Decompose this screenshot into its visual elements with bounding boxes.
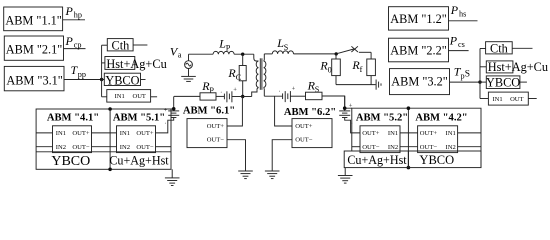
svg-text:Cth: Cth (490, 42, 508, 56)
switch SW (337, 46, 371, 59)
wire 5.1 OUT- stub (156, 146, 172, 148)
node P_hp label (65, 4, 82, 19)
wire 4.1 OUT+ to 5.1 IN1 (92, 132, 117, 134)
svg-text:Cth: Cth (112, 39, 130, 53)
junction divider bottom right pair (407, 166, 411, 170)
svg-text:ABM "6.2": ABM "6.2" (284, 107, 336, 118)
ABM "3.2" block (390, 69, 450, 95)
svg-text:cs: cs (458, 40, 465, 49)
inductor Ls label (276, 36, 289, 52)
wire 5.2 IN1 to 4.2 OUT+ (400, 132, 418, 134)
wire P_hs stub (449, 20, 478, 22)
svg-text:OUT: OUT (133, 93, 146, 100)
wire 5.2 OUT+ to battery V4 (345, 118, 360, 133)
wire P_cp stub (64, 48, 86, 50)
battery V1 primary (220, 86, 237, 102)
svg-text:.: . (279, 87, 281, 94)
battery V3 (164, 107, 180, 126)
svg-text:IN1: IN1 (120, 130, 130, 137)
svg-text:ABM "2.2": ABM "2.2" (390, 43, 447, 57)
ground 6.2 (265, 171, 280, 179)
node T_pp label (71, 63, 86, 79)
svg-text:OUT: OUT (510, 96, 523, 103)
svg-text:OUT+: OUT+ (136, 130, 154, 137)
wire label separator left pair (36, 151, 171, 153)
wire 4.1 IN2 stub (36, 146, 52, 148)
resistor Rp label (201, 79, 214, 95)
wire 6.1 OUT- drop (227, 140, 246, 171)
wire Ls to switch (294, 53, 337, 55)
capacitor Cth (right) (480, 42, 533, 56)
wire primary bottom left (174, 95, 200, 97)
wire top edge extension to Rp (171, 96, 174, 111)
svg-text:hp: hp (74, 11, 82, 20)
junction T_pp bracket (100, 78, 103, 81)
svg-text:ABM "3.1": ABM "3.1" (6, 73, 63, 87)
resistor Rf label (351, 58, 362, 74)
svg-text:a: a (178, 51, 182, 60)
svg-text:P: P (449, 34, 458, 48)
wire 4.1 IN1 stub (36, 132, 52, 134)
resistor Rf (367, 59, 376, 85)
svg-text:ABM "1.2": ABM "1.2" (390, 12, 447, 26)
wire battery V2 to Rs (290, 95, 305, 97)
node T_ps label (454, 65, 470, 81)
svg-text:IN2: IN2 (388, 144, 398, 151)
inductor Lp label (218, 37, 231, 53)
junction divider top right pair (407, 106, 411, 110)
svg-text:IN1: IN1 (115, 93, 125, 100)
source Va label (170, 45, 182, 60)
ABM "5.2"/"4.2" outer box (352, 108, 481, 167)
ABM "2.2" block (389, 38, 449, 62)
resistor R0 (332, 54, 341, 85)
svg-text:YBCO: YBCO (105, 73, 139, 87)
wire 6.2 OUT+ riser (275, 96, 292, 126)
svg-text:P: P (65, 34, 74, 48)
wire R0-Rf bottom rail (336, 84, 376, 86)
block 5.2 pins (360, 126, 400, 153)
wire divider 5.2/4.2 (407, 108, 409, 167)
wire P_cs stub (449, 50, 469, 52)
ground left pair (165, 178, 180, 186)
wire 6.1 OUT+ riser (227, 97, 242, 127)
resistor Rs (306, 92, 323, 100)
svg-text:IN1: IN1 (446, 130, 456, 137)
svg-text:.: . (351, 119, 353, 126)
wire 4.2 IN2 stub (458, 146, 481, 148)
block Hst+Ag+Cu (right) (480, 60, 548, 74)
wire 5.2 OUT- stub (352, 146, 360, 148)
ABM "1.2" block (389, 7, 449, 30)
svg-text:S: S (465, 70, 470, 80)
svg-text:OUT+: OUT+ (72, 130, 90, 137)
svg-text:OUT+: OUT+ (295, 123, 313, 130)
junction R0 top (335, 52, 338, 55)
svg-text:OUT−: OUT− (420, 144, 438, 151)
svg-text:ABM "2.1": ABM "2.1" (6, 42, 63, 56)
svg-text:OUT+: OUT+ (420, 130, 438, 137)
block Hst+Ag+Cu (left) (102, 57, 167, 71)
inductor Lp (213, 51, 234, 54)
svg-text:IN1: IN1 (56, 130, 66, 137)
svg-text:OUT−: OUT− (362, 144, 380, 151)
wire Lp to transformer (234, 53, 254, 55)
wire left pair ground stem (171, 169, 173, 177)
wire Rs to right battery drop (322, 96, 345, 108)
ground right pair (338, 176, 353, 184)
wire secondary bottom (264, 95, 282, 97)
svg-text:OUT−: OUT− (207, 137, 225, 144)
wire 4.1 OUT- to 5.1 IN2 (92, 146, 117, 148)
svg-text:0: 0 (328, 65, 332, 74)
wire T_ps to right stack (450, 81, 481, 83)
wire top edge extension right (345, 96, 352, 111)
svg-text:OUT−: OUT− (72, 144, 90, 151)
ABM "4.1"/"5.1" outer box (36, 109, 171, 169)
wire 4.2 IN1 stub (458, 132, 481, 134)
svg-text:ABM "6.1": ABM "6.1" (183, 105, 235, 116)
wire 5.1 OUT+ to battery V3 (156, 118, 174, 133)
block 4.2 pins (418, 126, 458, 153)
transformer T1 (252, 54, 266, 97)
junction divider bottom left pair (108, 168, 112, 172)
svg-text:Hst+Ag+Cu: Hst+Ag+Cu (106, 57, 166, 71)
svg-text:Hst+Ag+Cu: Hst+Ag+Cu (488, 60, 548, 74)
capacitor Cth (left) (102, 39, 148, 53)
svg-text:Cu+Ag+Hst: Cu+Ag+Hst (347, 153, 407, 167)
block IN1/OUT (left stack) (102, 90, 158, 103)
svg-text:IN1: IN1 (493, 96, 503, 103)
wire Rc bottom to transformer (243, 96, 252, 98)
ABM "1.1" block (4, 7, 63, 31)
svg-text:ABM "4.1": ABM "4.1" (47, 113, 99, 124)
svg-text:hs: hs (459, 10, 466, 19)
svg-text:Cu+Ag+Hst: Cu+Ag+Hst (109, 154, 169, 168)
svg-text:P: P (450, 3, 459, 17)
wire 6.2 OUT- drop (272, 140, 292, 171)
node P_hs label (450, 3, 467, 19)
ground 6.1 (238, 171, 253, 179)
ABM "6.1" block (183, 105, 235, 147)
ABM "3.1" block (4, 66, 64, 90)
resistor Rc (239, 54, 246, 96)
wire T_pp to left stack (64, 79, 102, 81)
junction battery V4 top (343, 106, 347, 110)
label box YBCO under 4.2 (408, 151, 481, 168)
block YBCO (left) (102, 73, 146, 87)
svg-text:ABM "5.2": ABM "5.2" (356, 113, 408, 124)
wire Va to Lp (189, 53, 214, 55)
svg-text:ABM "5.1": ABM "5.1" (113, 113, 165, 124)
inductor Ls (272, 51, 293, 54)
node P_cp label (65, 34, 82, 49)
svg-text:+: + (164, 107, 168, 114)
junction divider top left pair (108, 107, 112, 111)
svg-text:+: + (349, 102, 353, 109)
block IN1/OUT (right stack) (480, 92, 537, 105)
svg-text:.: . (165, 119, 167, 126)
wire left stack bracket (101, 45, 103, 97)
svg-text:OUT−: OUT− (295, 137, 313, 144)
ground under Va (181, 76, 196, 81)
svg-text:IN2: IN2 (120, 144, 130, 151)
wire P_hp stub (63, 19, 85, 21)
svg-text:cp: cp (74, 40, 82, 49)
resistor R0 label (319, 59, 331, 75)
ABM "2.1" block (4, 36, 63, 60)
resistor Rs label (307, 78, 320, 94)
ABM "6.2" block (284, 107, 336, 148)
svg-text:YBCO: YBCO (51, 154, 90, 169)
battery V2 secondary (279, 86, 296, 103)
svg-text:.: . (220, 88, 222, 95)
battery V4 (339, 102, 353, 125)
svg-text:+: + (292, 86, 296, 93)
svg-text:+: + (233, 86, 237, 93)
wire 5.2 IN2 to 4.2 OUT- (400, 146, 418, 148)
svg-text:OUT−: OUT− (136, 144, 154, 151)
svg-text:IN2: IN2 (446, 144, 456, 151)
wire divider 4.1/5.1 (109, 109, 111, 169)
junction battery V3 top (172, 107, 176, 111)
resistor Rc label (227, 66, 241, 82)
svg-text:YBCO: YBCO (486, 76, 520, 90)
svg-text:P: P (209, 86, 214, 95)
block YBCO (right) (480, 76, 527, 90)
wire right stack bracket (479, 49, 481, 99)
source Va sine (185, 54, 193, 76)
svg-text:ABM "3.2": ABM "3.2" (391, 75, 448, 89)
svg-text:S: S (315, 85, 320, 94)
svg-text:P: P (65, 4, 74, 18)
svg-text:OUT+: OUT+ (362, 130, 380, 137)
junction Rc top (241, 53, 244, 56)
svg-text:ABM "4.2": ABM "4.2" (415, 113, 467, 124)
svg-text:YBCO: YBCO (419, 153, 454, 167)
svg-text:ABM "1.1": ABM "1.1" (5, 13, 62, 27)
node P_cs label (449, 34, 465, 50)
svg-text:OUT+: OUT+ (207, 123, 225, 130)
wire right pair ground stem (344, 168, 346, 176)
svg-text:pp: pp (78, 70, 86, 79)
junction Rc bottom (241, 95, 244, 98)
svg-text:f: f (360, 65, 363, 74)
ground right-pointing at rail end (376, 80, 381, 90)
label box Cu+Ag+Hst under 5.2 (344, 151, 408, 168)
wire battery V1 to Rc bottom (232, 96, 243, 98)
resistor Rp (200, 93, 216, 100)
wire Rp to battery V1 (216, 95, 224, 97)
block 5.1 pins (117, 126, 156, 153)
junction T_ps bracket (478, 80, 481, 83)
block 4.1 pins (53, 126, 92, 153)
svg-text:IN1: IN1 (388, 130, 398, 137)
wire transformer to Ls (264, 53, 272, 55)
svg-text:IN2: IN2 (56, 144, 66, 151)
